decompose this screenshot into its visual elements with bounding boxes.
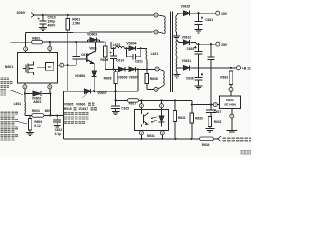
node T	[140, 99, 142, 101]
wire C010 lead	[42, 15, 44, 21]
pin 3 of N632	[230, 114, 234, 118]
node C (pin6 junction)	[49, 41, 51, 43]
pin 6 of N601	[48, 47, 52, 51]
coupling arrows	[152, 117, 156, 118]
zener VD608	[92, 71, 97, 77]
node O	[137, 68, 139, 70]
svg-text:560: 560	[45, 109, 51, 113]
svg-text:L621: L621	[151, 52, 159, 56]
resistor R634	[200, 137, 214, 141]
watermark bottom right	[241, 150, 251, 155]
pin 1 transformer primary top	[154, 13, 158, 17]
capacitor C641	[201, 17, 203, 19]
node AD	[210, 43, 212, 45]
wire W2 to V0612	[177, 40, 184, 42]
svg-text:N632: N632	[226, 98, 234, 102]
pin 3 of N601	[24, 47, 28, 51]
leader line lower-left	[18, 122, 27, 125]
diode VD604	[129, 46, 136, 51]
wire VD603 stubs	[88, 39, 91, 41]
wire node to pin 6	[49, 42, 51, 46]
node U	[160, 99, 162, 101]
node S	[115, 99, 117, 101]
node M	[140, 47, 142, 49]
svg-text:VD603: VD603	[87, 32, 97, 36]
svg-text:0.12: 0.12	[34, 124, 40, 128]
LED in N631	[159, 115, 165, 117]
wire zener down	[93, 77, 95, 91]
wire VD604 to node M	[137, 47, 147, 49]
svg-text:C621: C621	[135, 59, 143, 63]
svg-text:0.1μ: 0.1μ	[55, 132, 61, 136]
wire box to pin5	[49, 83, 51, 85]
svg-text:R632: R632	[214, 120, 222, 124]
wire bottom bus	[64, 138, 200, 140]
node Z	[174, 138, 176, 140]
wire L601 to row	[24, 113, 26, 115]
wire base of V601	[80, 58, 87, 60]
diode VD605	[118, 67, 125, 72]
wire pin5 down to node F	[49, 89, 51, 94]
transformer primary winding	[164, 16, 167, 33]
capacitor C634	[207, 56, 214, 58]
node R	[115, 90, 117, 92]
wire R634 to connector	[214, 138, 218, 140]
ground under R632	[205, 128, 214, 130]
ground under N632 pin3	[227, 129, 237, 131]
wire row y115	[25, 114, 32, 116]
svg-text:1.5M: 1.5M	[72, 22, 80, 26]
resistor R608	[146, 69, 148, 73]
svg-text:R608: R608	[150, 77, 158, 81]
capacitor C637	[210, 105, 212, 110]
pin 7 transformer aux	[155, 67, 159, 71]
wire to opto pin4	[140, 100, 142, 103]
wire pin1 to coil	[158, 15, 164, 16]
terminal +B	[237, 66, 241, 70]
diode V0621	[183, 65, 189, 70]
node Q	[93, 90, 95, 92]
ground under C612	[54, 124, 60, 126]
wire 300V bus y15	[34, 14, 154, 16]
wire pin3 to box	[25, 51, 27, 53]
phototransistor in N631	[143, 115, 145, 124]
wire W1 bottom to ground	[175, 32, 177, 36]
svg-text:SE140N: SE140N	[224, 103, 236, 107]
wire pin3 down	[231, 118, 233, 130]
node AF	[210, 104, 212, 106]
wire R631 to bus	[174, 122, 176, 139]
svg-text:C637: C637	[214, 110, 222, 114]
svg-text:V0615: V0615	[181, 4, 191, 8]
regulator N632 box	[220, 96, 241, 109]
wire pin3 inside	[140, 125, 142, 127]
svg-text:V0606: V0606	[76, 103, 85, 107]
svg-text:C641: C641	[205, 18, 213, 22]
pin 3 of N631	[139, 131, 143, 135]
resistor R604	[32, 114, 44, 118]
pin 5 of N601 (bottom)	[48, 85, 52, 89]
wire to N632 pin2	[192, 104, 213, 106]
wire pin2 down	[24, 89, 26, 102]
wire R609 col to C615	[115, 91, 117, 106]
ground under R603	[26, 131, 34, 133]
svg-text:R630: R630	[195, 117, 203, 121]
svg-text:N601: N601	[5, 65, 13, 69]
node D on R001 line	[67, 64, 69, 66]
wire row y48	[111, 47, 116, 49]
wire R630 to bus	[191, 123, 193, 139]
wire W2-W3 link	[176, 56, 178, 58]
diode V0607	[84, 89, 90, 94]
svg-text:N631: N631	[147, 134, 155, 138]
node X	[140, 138, 142, 140]
svg-text:V0605: V0605	[64, 103, 73, 107]
wire V0621 to +B	[191, 67, 237, 69]
svg-text:A603: A603	[33, 100, 41, 104]
resistor R603	[29, 115, 31, 118]
svg-text:V0607: V0607	[97, 91, 107, 95]
wire R001 down to pin junction	[67, 30, 69, 91]
wire to opto pin1	[161, 100, 163, 103]
wire bus to row riser	[110, 42, 112, 48]
wire R632 down	[209, 127, 211, 129]
capacitor C615	[111, 105, 120, 107]
node AC	[197, 43, 199, 45]
svg-text:VD606: VD606	[118, 76, 128, 80]
wire box to pin1	[58, 64, 60, 66]
connector arrow to control	[218, 136, 221, 141]
node E	[24, 92, 26, 94]
svg-text:R919: R919	[64, 107, 72, 111]
node K	[126, 47, 128, 49]
wire R633 to pin	[230, 85, 232, 88]
wire box to pin2	[24, 83, 26, 85]
svg-text:R633: R633	[220, 75, 228, 79]
wire bus y32	[26, 31, 154, 34]
svg-text:R602: R602	[32, 37, 40, 41]
wire pin2 to box	[217, 104, 219, 106]
wire pin1 to R001 line	[64, 64, 76, 66]
node H (C612 junction)	[56, 114, 58, 116]
wire R608 to pin 4	[146, 84, 148, 90]
svg-text:R631: R631	[178, 116, 186, 120]
capacitor C621	[127, 48, 133, 57]
node B (R001 junction)	[67, 14, 69, 16]
node V	[174, 99, 176, 101]
resistor R632	[208, 117, 211, 127]
diode V0615	[183, 11, 189, 16]
node A (C010 junction)	[42, 14, 44, 16]
resistor R633	[229, 71, 232, 85]
wire L621 down	[146, 60, 148, 70]
node W	[191, 104, 193, 106]
inductor L621	[145, 48, 148, 59]
node F	[49, 92, 51, 94]
capacitor C612	[56, 115, 58, 119]
transistor Q1 MOSFET inside N601	[25, 65, 27, 73]
node Y	[161, 138, 163, 140]
pin 1 of N631	[160, 104, 164, 108]
wire row corner down	[191, 100, 193, 113]
svg-text:R609: R609	[104, 76, 112, 80]
pin 2 of N632	[213, 103, 217, 107]
ground W1	[173, 35, 181, 37]
resistor R617	[127, 99, 138, 102]
wire pin4 into box	[140, 108, 142, 114]
diode V0612	[183, 40, 189, 45]
wire bend to pin 3	[25, 33, 27, 47]
ground under C636	[195, 85, 203, 87]
resistor R609	[115, 69, 117, 72]
pin 4 of N631	[139, 104, 143, 108]
resistor R630	[190, 113, 193, 123]
annotation upper-left (N601 note)	[0, 77, 9, 80]
svg-text:C614: C614	[116, 59, 124, 63]
label control circuit (chinese)	[223, 137, 253, 141]
pin 1 of N632	[229, 87, 233, 91]
wire V601 collector	[95, 42, 97, 51]
capacitor C635	[194, 46, 196, 48]
annotation lower-left (AC input note)	[0, 112, 18, 115]
svg-text:V0621: V0621	[182, 59, 192, 63]
svg-text:L622: L622	[113, 43, 121, 47]
wire V601 emitter	[93, 64, 95, 71]
svg-text:+B 110V: +B 110V	[242, 66, 251, 70]
optocoupler N631 box	[135, 110, 169, 131]
pin 2 of N601 (bottom)	[23, 85, 27, 89]
capacitor C636	[201, 73, 203, 75]
svg-text:VD605: VD605	[129, 76, 139, 80]
pin 2 transformer primary bottom	[154, 30, 158, 34]
node I (C613 top)	[75, 41, 77, 43]
resistor R602	[32, 40, 43, 44]
transformer secondary winding W3	[175, 58, 178, 71]
wire pin3 to bus	[140, 135, 142, 139]
node AE	[230, 67, 232, 69]
svg-text:L601: L601	[14, 102, 22, 106]
wire V0615 to 15V	[191, 12, 216, 14]
svg-text:R604: R604	[32, 109, 40, 113]
svg-text:VD608: VD608	[75, 74, 85, 78]
wire 25V rail down	[210, 44, 212, 57]
leader line upper-left	[11, 90, 23, 95]
svg-text:400V: 400V	[48, 24, 57, 28]
svg-text:C636: C636	[186, 76, 194, 80]
IC N601 box	[18, 53, 58, 83]
wire box to pin3	[140, 130, 142, 132]
resistor R631	[174, 100, 176, 110]
ground under C615	[112, 111, 120, 113]
wire pin6 to box	[49, 51, 51, 53]
pin 4 transformer aux	[154, 87, 158, 91]
wire to V0602	[25, 93, 33, 95]
transformer aux winding	[163, 71, 166, 86]
ground under C641	[195, 29, 203, 31]
wire W3 to V0621	[177, 67, 184, 69]
transformer secondary winding W1	[175, 16, 178, 32]
svg-text:25V: 25V	[221, 43, 228, 47]
node AB	[197, 12, 199, 14]
wire pin2 to bus	[161, 135, 163, 139]
wire box to pin3	[231, 109, 233, 115]
wire W3 bottom	[176, 72, 178, 75]
transformer core	[169, 12, 171, 93]
svg-text:C615: C615	[121, 107, 129, 111]
ground W3	[173, 74, 180, 76]
svg-text:R606: R606	[100, 58, 108, 62]
wire V0612 to 25V	[191, 42, 216, 44]
transistor V601	[86, 53, 88, 62]
svg-text:VD617: VD617	[78, 107, 88, 111]
node N	[112, 68, 114, 70]
wire R603 down	[29, 130, 31, 132]
svg-text:300V: 300V	[17, 11, 26, 15]
pin 2 of N631	[160, 131, 164, 135]
terminal 25V	[216, 42, 220, 46]
diode VD606	[129, 67, 136, 72]
node AA	[190, 138, 192, 140]
wire row y91	[64, 90, 138, 92]
diode VD603	[90, 37, 97, 42]
IC block inside N601	[45, 63, 53, 71]
wire R604 to node G	[44, 114, 64, 116]
wire mid-diode down	[137, 69, 139, 91]
wire left stub y42	[11, 41, 32, 43]
wire left drop	[63, 91, 65, 139]
leader to V0607	[83, 93, 87, 98]
terminal 15V	[216, 11, 220, 15]
svg-text:C635: C635	[187, 47, 195, 51]
wire R617 to right	[139, 99, 192, 101]
wire pin to N632	[230, 91, 232, 95]
resistor R001	[67, 15, 69, 19]
svg-text:VD604: VD604	[126, 41, 136, 45]
wire V0602 to node F	[42, 93, 50, 95]
wire C634 down	[210, 60, 212, 105]
wire coil to pin2	[158, 32, 164, 34]
inductor L601	[24, 102, 27, 113]
wire R609 down	[115, 84, 117, 92]
wire L622 to node K	[124, 47, 129, 49]
svg-text:15V: 15V	[221, 12, 228, 16]
resistor R606	[104, 42, 106, 46]
wire R602 to node	[43, 41, 105, 43]
node G	[49, 114, 51, 116]
capacitor C613	[75, 42, 77, 56]
pin 1 of N601 (right)	[60, 63, 64, 67]
svg-text:R634: R634	[202, 143, 210, 147]
svg-text:V0612: V0612	[182, 35, 192, 39]
wire box to pin2	[161, 130, 163, 132]
wire W1 top to V0615	[176, 13, 183, 15]
wire row y100	[116, 99, 128, 101]
ground under C010	[39, 27, 47, 29]
inductor L622	[115, 46, 124, 48]
wire pin7 to aux coil	[159, 69, 163, 70]
capacitor C010	[38, 18, 40, 20]
svg-text:R617: R617	[129, 102, 137, 106]
transformer secondary winding W2	[175, 40, 178, 56]
wire pin4 to aux coil	[158, 86, 163, 89]
wire row y68	[105, 68, 155, 70]
node J (C614)	[112, 47, 114, 49]
capacitor C614	[109, 52, 111, 54]
wire pin1 into box	[161, 108, 163, 116]
node P	[146, 68, 148, 70]
diode V0602	[33, 91, 41, 96]
